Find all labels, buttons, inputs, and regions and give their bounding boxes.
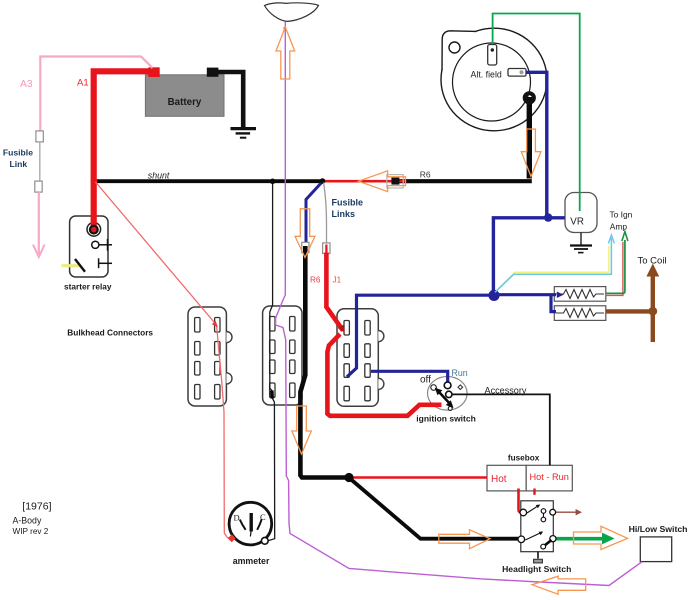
ammeter needle — [249, 513, 253, 537]
connector 2 pin blob (black sense wire) — [270, 391, 274, 399]
wire: red J1 inside link — [325, 245, 327, 254]
ammeter right tick — [257, 519, 262, 530]
svg-text:Bulkhead Connectors: Bulkhead Connectors — [67, 328, 153, 338]
battery negative terminal — [207, 68, 219, 77]
ignition switch body — [428, 377, 468, 411]
node: A1/shunt junction (red) — [91, 178, 98, 185]
svg-text:A3: A3 — [20, 79, 33, 90]
ignition switch key arrow — [435, 388, 454, 411]
starter relay stud inner ring (red wire end) — [90, 226, 98, 234]
svg-text:To Ign: To Ign — [610, 210, 633, 220]
node: navy distribution junction — [488, 290, 499, 301]
svg-text:Accessory: Accessory — [485, 385, 527, 395]
fusebox — [487, 465, 572, 491]
svg-text:ignition switch: ignition switch — [416, 414, 476, 424]
red pin arrowhead in connector 1 — [212, 321, 218, 327]
starter relay ignition terminal with tick — [92, 239, 112, 251]
ammeter M1 body — [229, 502, 272, 545]
svg-text:Run: Run — [452, 368, 468, 378]
wire: black R6 below link through connector 2 — [300, 246, 349, 478]
fusible link J1 — [323, 243, 330, 254]
fusible link (A3 lower) — [35, 181, 42, 192]
battery positive terminal — [148, 67, 159, 77]
wire: red A1 battery feed — [94, 71, 150, 229]
svg-text:Amp: Amp — [610, 222, 628, 232]
node: shunt/black sense junction — [270, 179, 276, 185]
wire: green headlight to Hi/Low — [556, 537, 604, 541]
voltage regulator VR — [565, 193, 597, 233]
bulkhead connector 3 body — [337, 309, 384, 407]
ignition switch Run terminal — [444, 382, 451, 389]
orange flow arrow (up, at lamp) — [276, 27, 295, 79]
starter relay switch blade — [75, 259, 85, 272]
wire: red fusebox Hot feed — [350, 476, 487, 478]
svg-text:Fusible: Fusible — [332, 198, 364, 208]
wire: red R6 link segment — [323, 180, 406, 183]
ammeter left tick — [240, 520, 246, 530]
svg-text:Hot - Run: Hot - Run — [530, 472, 569, 482]
wire: thin black shunt sense to ammeter C — [268, 182, 274, 541]
svg-text:D: D — [234, 513, 240, 523]
ignition switch start terminal (diamond) — [458, 385, 463, 390]
node: navy VR junction — [544, 213, 552, 221]
svg-text:R6: R6 — [420, 170, 431, 180]
wire: green alternator field to VR — [493, 14, 580, 212]
ammeter D terminal (red) — [228, 534, 236, 542]
svg-text:WIP rev 2: WIP rev 2 — [13, 527, 49, 536]
svg-text:Battery: Battery — [168, 97, 202, 108]
R6 terminal block (gray outline) — [387, 175, 403, 188]
headlight switch upper-right terminal — [550, 509, 556, 515]
node: brown junction — [648, 307, 657, 316]
ground (battery) — [231, 129, 257, 138]
wire: red Hot cell to headlight switch — [519, 489, 523, 513]
headlight switch ground — [534, 552, 543, 563]
orange flow arrow (left, on red R6 segment) — [359, 171, 406, 192]
pink arrowhead (A3 down) — [33, 245, 45, 258]
wire: brown-red headlight tap arrow — [556, 511, 578, 513]
brown arrowhead (To Coil) — [646, 264, 659, 277]
svg-text:Hot: Hot — [491, 474, 507, 485]
svg-text:Headlight Switch: Headlight Switch — [502, 564, 571, 574]
orange flow arrow (right, over green Hi/Low wire) — [574, 526, 628, 549]
wire: navy alternator field 2 to VR junction — [493, 72, 564, 295]
wire: navy to bulkhead connector 3 and ballast resistors — [347, 295, 556, 377]
wire: black accessory from ignition to fusebox — [452, 394, 550, 465]
headlight switch body — [521, 501, 554, 552]
orange flow arrow (down, on navy R6 drop) — [295, 209, 315, 258]
wire: gray J1 drop from shunt — [324, 183, 327, 244]
wire: black alternator output down — [527, 97, 532, 179]
wire: pink A3 feed, horizontal + diagonal to battery — [40, 57, 152, 132]
svg-text:To Coil: To Coil — [638, 256, 667, 267]
VR ground — [570, 233, 592, 253]
svg-text:C: C — [260, 512, 266, 522]
brown-red arrowhead — [576, 509, 582, 515]
green filled arrowhead (to Hi/Low) — [602, 533, 615, 545]
svg-text:A-Body: A-Body — [13, 516, 42, 526]
Hi/Low switch box — [640, 537, 671, 562]
svg-text:Links: Links — [332, 209, 356, 219]
wire: navy shunt to R6 fusible link — [306, 182, 323, 245]
svg-text:Fusible: Fusible — [3, 148, 33, 158]
orange flow arrow (left, on purple return) — [532, 576, 586, 594]
svg-text:ammeter: ammeter — [233, 556, 270, 566]
ignition switch off terminal — [431, 385, 437, 391]
svg-text:starter relay: starter relay — [64, 282, 112, 292]
svg-text:Alt. field: Alt. field — [471, 70, 502, 80]
wire: yellow to ign amp — [497, 246, 609, 291]
fusible link (A3 upper) — [36, 131, 43, 142]
alternator field terminal 2 — [508, 69, 526, 77]
bulkhead connector 2 body — [263, 306, 302, 405]
svg-text:R6: R6 — [310, 276, 321, 285]
svg-text:VR: VR — [570, 217, 584, 228]
alternator field terminal 1 — [488, 45, 497, 66]
headlight switch lower-right terminal — [550, 536, 556, 542]
wire: brown ballast to coil — [606, 275, 653, 342]
svg-text:fusebox: fusebox — [508, 454, 540, 463]
wire: navy connector 3 to ignition Run terminal — [371, 371, 448, 382]
headlight switch mid contacts — [541, 509, 546, 522]
fusible link R6 — [302, 242, 309, 252]
alternator output post — [525, 93, 534, 102]
headlight switch upper-left terminal — [520, 509, 527, 516]
R6 terminal block (black) — [391, 178, 399, 185]
ammeter C terminal — [261, 537, 268, 544]
svg-text:off: off — [420, 375, 431, 386]
headlight switch upper contact arrow — [527, 505, 540, 514]
red mark at lamp arrow tip — [284, 27, 287, 30]
wire: shunt (black) — [94, 179, 323, 183]
cyan arrowhead — [608, 235, 614, 243]
wire: cyan to ign amp — [495, 238, 611, 292]
starter relay yellow wire — [62, 264, 81, 267]
wire: gray segment between A3 links — [39, 142, 41, 181]
headlight switch lower contact arrow — [525, 532, 543, 541]
headlight switch lever — [541, 540, 552, 549]
wire: red companion to ign amp — [606, 242, 623, 295]
wire: black R6 horizontal — [392, 179, 532, 183]
red pin arrowhead in connector 3 — [338, 325, 345, 333]
lamp reflector symbol (top) — [265, 3, 319, 22]
starter relay battery stud terminal — [87, 223, 101, 237]
orange flow arrow (down, below connector 2) — [292, 406, 312, 454]
wire: battery negative to ground — [213, 72, 243, 127]
green arrowhead — [622, 232, 628, 242]
wire: green ballast to ign amp — [606, 240, 625, 293]
wire: thick black to headlight switch — [351, 479, 519, 539]
wire: thin red shunt sense to ammeter D — [96, 182, 232, 538]
headlight switch lower-left terminal — [518, 536, 525, 543]
svg-text:[1976]: [1976] — [22, 501, 51, 513]
wire: red stub below Hot-Run cell — [533, 489, 535, 495]
orange flow arrow (down, on alternator output) — [521, 129, 541, 177]
starter relay K1 — [64, 216, 112, 292]
orange flow arrow (right, to headlight switch) — [439, 530, 490, 549]
wire: pink A3 tail — [38, 192, 40, 254]
svg-text:A1: A1 — [77, 78, 89, 89]
starter relay ground contact — [99, 258, 112, 268]
alternator G1 body — [441, 28, 547, 131]
svg-text:shunt: shunt — [148, 170, 170, 180]
battery B1 — [145, 75, 224, 117]
ballast resistor (bottom) — [554, 306, 606, 321]
wire: red J1 below link, into connector 3 and around to ignition switch — [326, 253, 441, 416]
node: shunt end junction (black) — [320, 178, 326, 184]
ballast resistor (top) — [554, 287, 606, 302]
navy arrowhead at ballast resistor — [557, 292, 564, 299]
wire: purple park lamp feed (lamp to headlight area) — [276, 22, 642, 586]
node: black distribution junction — [344, 473, 353, 482]
bulkhead connector 1 body — [188, 307, 232, 406]
ignition switch accessory terminal — [446, 391, 452, 397]
svg-text:Link: Link — [10, 159, 28, 169]
svg-text:J1: J1 — [333, 276, 342, 285]
svg-text:Hi/Low Switch: Hi/Low Switch — [629, 524, 688, 534]
